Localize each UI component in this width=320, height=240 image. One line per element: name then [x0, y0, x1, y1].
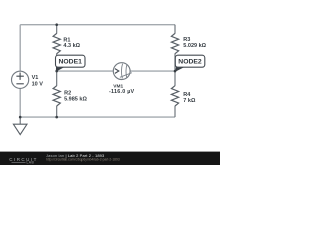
node NODE1 flag — [56, 55, 86, 71]
svg-text:5.029 kΩ: 5.029 kΩ — [183, 43, 206, 49]
wire R2 bottom lead — [56, 106, 58, 117]
wire R3 bottom lead to NODE2 — [174, 54, 176, 72]
wire R1 top lead — [56, 25, 58, 34]
voltmeter VM1 — [113, 63, 132, 80]
svg-text:5.985 kΩ: 5.985 kΩ — [64, 97, 87, 103]
wire R3 top lead — [174, 25, 176, 34]
svg-text:-116.0 µV: -116.0 µV — [109, 89, 135, 95]
footer logo rule — [12, 162, 26, 164]
svg-text:10 V: 10 V — [32, 82, 44, 88]
wire bottom horizontal (ground net) — [20, 116, 175, 118]
ground — [13, 117, 27, 135]
resistor R2 — [53, 86, 60, 106]
footer bar — [0, 152, 220, 165]
resistor R1 — [53, 33, 60, 53]
junction dot ground stub — [19, 116, 22, 119]
wire R1 bottom lead to NODE1 — [56, 54, 58, 72]
svg-text:4.3 kΩ: 4.3 kΩ — [63, 43, 80, 49]
wire R4 bottom lead — [174, 106, 176, 117]
junction dot NODE1 — [55, 70, 58, 73]
svg-text:LAB: LAB — [27, 161, 35, 165]
wire top horizontal (node N1: V1+ to R1/R3 tops) — [20, 24, 175, 26]
wire R4 top lead from NODE2 — [174, 71, 176, 86]
wire left vertical (V1 branch) — [19, 25, 21, 117]
wire middle horizontal (NODE1 to VM1 to NODE2) — [57, 70, 175, 72]
svg-text:NODE1: NODE1 — [58, 59, 82, 66]
svg-text:http://circuitlab.com/c/6qp6ym: http://circuitlab.com/c/6qp6ymb4/lab-2-p… — [46, 158, 120, 162]
resistor R3 — [171, 33, 178, 53]
svg-text:NODE2: NODE2 — [178, 59, 202, 66]
svg-text:7 kΩ: 7 kΩ — [183, 98, 196, 104]
resistor R4 — [171, 86, 178, 106]
junction dot NODE2 — [174, 70, 177, 73]
node NODE2 flag — [175, 55, 205, 71]
junction dot top wire / R1 — [55, 23, 58, 26]
svg-text:V1: V1 — [32, 75, 39, 81]
wire R2 top lead from NODE1 — [56, 71, 58, 86]
voltage source V1 — [12, 71, 29, 88]
junction dot bottom wire / R2 — [55, 116, 58, 119]
